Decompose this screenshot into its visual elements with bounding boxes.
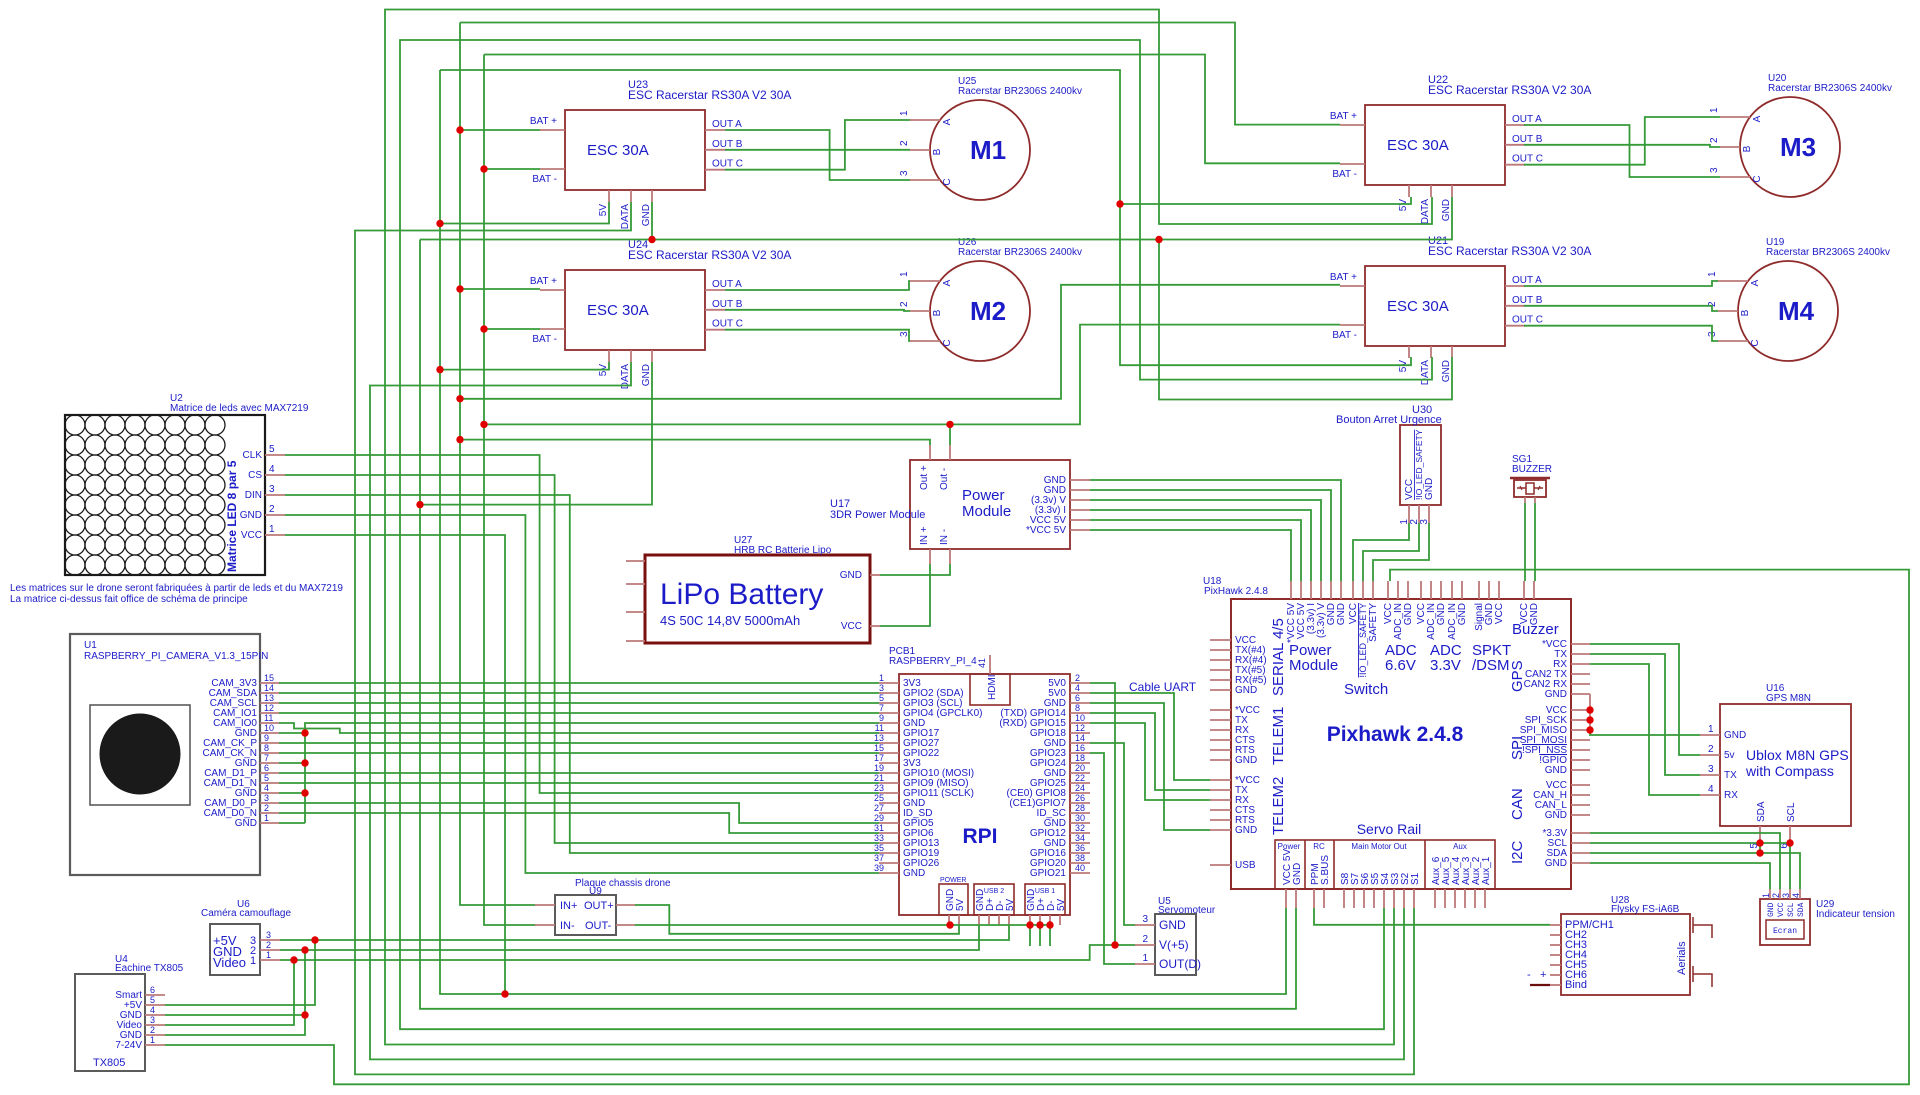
U18 right pin CAN_L [1571, 804, 1590, 806]
svg-text:BAT +: BAT + [530, 276, 557, 287]
svg-text:3: 3 [1708, 764, 1714, 775]
U18 left pin TX(#5) [1210, 669, 1231, 671]
ESC U21 pin GND [1451, 346, 1453, 358]
svg-text:3: 3 [899, 170, 910, 176]
motor U20 pin 2 [1720, 146, 1740, 148]
svg-text:Caméra camouflage: Caméra camouflage [201, 908, 291, 919]
ESC U22 pin OUT A [1505, 124, 1525, 126]
svg-text:M3: M3 [1780, 132, 1816, 162]
wire DATA U23 to S1 [355, 202, 1414, 1074]
U18 right pin *VCC [1571, 643, 1590, 645]
U17 pin (3.3v) I [1070, 509, 1090, 511]
wire RPI GND to TELEM2 GND [1090, 703, 1210, 830]
svg-text:36: 36 [1075, 843, 1085, 853]
wire I2C GND [1590, 863, 1770, 889]
wire camera CK_N [279, 752, 879, 754]
wire U9 OUT+ to RPI 5V [635, 905, 959, 934]
svg-text:3: 3 [150, 1015, 155, 1025]
svg-text:S1: S1 [1410, 872, 1421, 885]
wire USB1 D+ stub [1039, 925, 1041, 946]
PCB1 pin 17 3V3 [879, 762, 899, 764]
U18 right pin SPI_MISO [1571, 729, 1590, 731]
wire GND U21 [1159, 240, 1452, 400]
svg-text:OUT A: OUT A [712, 119, 742, 130]
U18 bottom pin S2 [1403, 889, 1405, 908]
power module U17 [910, 460, 1070, 549]
svg-text:3: 3 [269, 484, 275, 495]
U18 right pin CAN2 RX [1571, 683, 1590, 685]
svg-text:/DSM: /DSM [1472, 657, 1510, 674]
PCB1 pin 41 [989, 655, 991, 674]
svg-text:ESC 30A: ESC 30A [587, 142, 649, 159]
U16 pin 5 SDA [1759, 826, 1761, 840]
wire LED VCC to 5V [285, 535, 505, 994]
svg-text:5: 5 [264, 773, 269, 783]
svg-text:GND: GND [641, 364, 652, 386]
svg-text:S.BUS: S.BUS [1320, 855, 1331, 885]
svg-text:GND: GND [1724, 730, 1746, 741]
svg-text:Main Motor Out: Main Motor Out [1351, 842, 1407, 851]
LiPo battery U27 [645, 555, 870, 643]
U1 pin 1 GND [260, 822, 279, 824]
svg-text:GND: GND [1292, 863, 1303, 885]
PCB1 USB1 connector [1025, 884, 1065, 915]
svg-text:SDA: SDA [1797, 902, 1806, 917]
svg-text:39: 39 [874, 863, 884, 873]
svg-text:OUT A: OUT A [712, 279, 742, 290]
U1 pin 15 CAM_3V3 [260, 682, 279, 684]
wire U30 VCC [1353, 523, 1409, 581]
svg-text:TELEM1: TELEM1 [1270, 707, 1287, 765]
svg-text:2: 2 [1709, 137, 1720, 143]
svg-text:GND: GND [1336, 603, 1347, 625]
U18 right pin !GPIO [1571, 759, 1590, 761]
wire 5V top to U22 U21 [440, 70, 1411, 365]
svg-text:ESC Racerstar RS30A V2 30A: ESC Racerstar RS30A V2 30A [1428, 244, 1591, 258]
U30 pin 1 [1408, 505, 1410, 523]
svg-text:GND: GND [1424, 478, 1435, 500]
svg-text:BAT -: BAT - [1332, 169, 1357, 180]
U18 left pin TX(#4) [1210, 649, 1231, 651]
wire RPI 5V0 to TELEM2 VCC [1090, 693, 1210, 780]
U4 pin 4 GND [145, 1014, 165, 1016]
wire DATA U24 to S2 [370, 362, 1404, 1059]
svg-text:I2C: I2C [1509, 840, 1526, 864]
svg-text:8: 8 [1075, 703, 1080, 713]
U18 top pin ADC_IN [1397, 581, 1399, 599]
svg-text:11: 11 [264, 713, 273, 723]
U18 left pin CTS [1210, 739, 1231, 741]
U27 pin VCC [870, 625, 880, 627]
svg-text:Video: Video [213, 955, 246, 970]
svg-text:M4: M4 [1778, 296, 1815, 326]
motor U26 pin 1 [910, 280, 940, 282]
junction dots [456, 126, 463, 133]
svg-text:2: 2 [269, 504, 275, 515]
ESC U21 pin BAT+ [1340, 285, 1365, 287]
wire GND branch to U4 [165, 950, 305, 1035]
svg-text:CS: CS [248, 470, 262, 481]
U18 top pin GND [1407, 581, 1409, 599]
PCB1 pin 11 GPIO17 [879, 732, 899, 734]
wire camera CK_P [279, 742, 879, 744]
motor U19 pin 2 [1718, 310, 1738, 312]
U6 pin 1 [260, 959, 280, 961]
wire GPS RX [1590, 664, 1700, 795]
U18 left pin *VCC [1210, 709, 1231, 711]
svg-text:4: 4 [1075, 683, 1080, 693]
wire matrix CLK [285, 455, 879, 793]
ESC U24 pin BAT+ [540, 289, 565, 291]
svg-text:Servo Rail: Servo Rail [1357, 821, 1422, 837]
U17 pin Out- [949, 445, 951, 460]
wire GPS TX [1590, 654, 1700, 775]
PCB1 pin 37 GPIO26 [879, 862, 899, 864]
U28 bind lead [1530, 984, 1550, 986]
U18 left pin TX [1210, 719, 1231, 721]
U27 pin GND [870, 574, 880, 576]
svg-text:ESC 30A: ESC 30A [1387, 298, 1449, 315]
svg-text:2: 2 [1771, 893, 1781, 898]
svg-text:*VCC 5V: *VCC 5V [1026, 525, 1066, 536]
U18 left pin RX(#5) [1210, 679, 1231, 681]
svg-text:POWER: POWER [940, 877, 966, 884]
svg-text:Power: Power [962, 487, 1005, 504]
svg-text:ESC Racerstar RS30A V2 30A: ESC Racerstar RS30A V2 30A [1428, 83, 1591, 97]
svg-text:18: 18 [1075, 753, 1085, 763]
svg-text:ESC Racerstar RS30A V2 30A: ESC Racerstar RS30A V2 30A [628, 248, 791, 262]
svg-text:GND: GND [1545, 689, 1567, 700]
svg-text:DIN: DIN [245, 490, 262, 501]
U1 pin 5 CAM_D1_N [260, 782, 279, 784]
svg-text:Racerstar BR2306S 2400kv: Racerstar BR2306S 2400kv [1766, 247, 1890, 258]
svg-text:Bind: Bind [1565, 979, 1587, 991]
svg-text:1: 1 [1142, 953, 1148, 964]
U18 top pin VCC [1387, 581, 1389, 599]
wire BAT+ top to U22 [460, 23, 1340, 125]
svg-text:USB 1: USB 1 [1035, 888, 1055, 895]
svg-text:7: 7 [879, 703, 884, 713]
svg-text:4S 50C 14,8V 5000mAh: 4S 50C 14,8V 5000mAh [660, 613, 800, 628]
svg-text:DATA: DATA [1420, 360, 1431, 386]
U29 pin 3 SCL [1789, 889, 1791, 899]
svg-text:30: 30 [1075, 813, 1085, 823]
wire RPI GND to servo GND [1090, 743, 1135, 925]
U18 bottom pin S4 [1383, 889, 1385, 908]
U18 right pin GND [1571, 862, 1590, 864]
U18 right pin GND [1571, 814, 1590, 816]
wire I2C SCL [1590, 843, 1790, 889]
svg-text:23: 23 [874, 783, 884, 793]
svg-text:OUT C: OUT C [1512, 154, 1543, 165]
motor U26 M2 [930, 261, 1030, 361]
U5 pin 1 OUT(D) [1135, 963, 1155, 965]
U18 right pin VCC [1571, 784, 1590, 786]
wire GND U23 [651, 202, 653, 240]
svg-text:OUT-: OUT- [585, 920, 612, 932]
svg-text:VCC: VCC [841, 621, 862, 632]
U2 pin 3 DIN [265, 494, 285, 496]
svg-text:USB 2: USB 2 [984, 888, 1004, 895]
motor U25 pin 3 [910, 179, 940, 181]
wire M2 OUT B [725, 310, 910, 311]
motor U20 pin 1 [1720, 116, 1750, 118]
U18 right pin SPI_MOSI [1571, 739, 1590, 741]
svg-text:26: 26 [1075, 793, 1085, 803]
svg-text:29: 29 [874, 813, 884, 823]
U1 pin 9 CAM_CK_P [260, 742, 279, 744]
svg-text:BUZZER: BUZZER [1512, 464, 1552, 475]
svg-text:5: 5 [269, 444, 275, 455]
ESC U22 pin DATA [1430, 185, 1432, 197]
svg-text:1: 1 [150, 1035, 155, 1045]
ESC U21 pin DATA [1430, 346, 1432, 358]
svg-text:Ublox M8N GPS: Ublox M8N GPS [1746, 747, 1849, 763]
svg-text:BAT +: BAT + [1330, 111, 1357, 122]
svg-text:GND: GND [240, 510, 262, 521]
wire GPS VCC [1590, 644, 1700, 755]
svg-text:TX: TX [1724, 770, 1737, 781]
U18 bottom pin S8 [1343, 889, 1345, 908]
ESC U23 pin BAT- [540, 168, 565, 170]
ESC U22 pin GND [1451, 185, 1453, 197]
wire matrix CS [285, 475, 879, 843]
svg-text:3: 3 [879, 683, 884, 693]
svg-text:GND: GND [235, 818, 257, 829]
svg-text:10: 10 [264, 723, 274, 733]
svg-text:14: 14 [264, 683, 274, 693]
PCB1 pin 38 GPIO20 [1070, 862, 1090, 864]
svg-text:GND: GND [1457, 603, 1468, 625]
svg-text:SDA: SDA [1756, 801, 1767, 822]
svg-text:6: 6 [150, 985, 155, 995]
wire power module to pixhawk [1090, 490, 1331, 581]
svg-text:SERIAL 4/5: SERIAL 4/5 [1270, 618, 1287, 696]
wire M4 OUT C [1524, 326, 1718, 341]
wire U4 GND4 [165, 1014, 305, 1016]
svg-text:B: B [932, 148, 943, 155]
svg-text:RASPBERRY_PI_CAMERA_V1.3_15PIN: RASPBERRY_PI_CAMERA_V1.3_15PIN [84, 651, 268, 662]
ESC U22 pin OUT B [1505, 144, 1525, 146]
svg-text:M1: M1 [970, 135, 1006, 165]
U18 top pin (3.3v) V [1320, 581, 1322, 599]
U28 aerial 2 [1692, 966, 1694, 982]
U2 pin 1 VCC [265, 534, 285, 536]
U18 top pin GND [1330, 581, 1332, 599]
svg-text:16: 16 [1075, 743, 1085, 753]
svg-text:15: 15 [264, 673, 274, 683]
PCB1 pin 15 GPIO22 [879, 752, 899, 754]
svg-text:RX: RX [1724, 790, 1738, 801]
U18 right pin SDA [1571, 852, 1590, 854]
wire RPI 5V0 to servo [1090, 683, 1115, 945]
PCB1 pin 7 GPIO4 (GPCLK0) [879, 712, 899, 714]
PCB1 pin 19 GPIO10 (MOSI) [879, 772, 899, 774]
U28 pin CH3 [1550, 944, 1561, 946]
U1 pin 6 CAM_D1_P [260, 772, 279, 774]
svg-text:CAN: CAN [1509, 788, 1526, 820]
wire BAT- U24 [484, 328, 540, 330]
svg-text:GND: GND [1235, 755, 1257, 766]
U28 pin CH6 [1550, 974, 1561, 976]
U4 pin 5 +5V [145, 1004, 165, 1006]
U18 bottom pin Aux_4 [1454, 889, 1456, 908]
wire M4 OUT A [1524, 281, 1718, 286]
U28 pin CH2 [1550, 934, 1561, 936]
U4 pin 1 7-24V [145, 1044, 165, 1046]
U18 left pin VCC [1210, 639, 1231, 641]
U17 pin (3.3v) V [1070, 499, 1090, 501]
svg-text:A: A [942, 118, 953, 125]
svg-text:5V: 5V [598, 204, 609, 217]
U18 left pin GND [1210, 689, 1231, 691]
svg-text:GND: GND [1441, 199, 1452, 221]
svg-text:GND: GND [1545, 765, 1567, 776]
svg-text:GND: GND [1235, 685, 1257, 696]
svg-text:Matrice de leds avec MAX7219: Matrice de leds avec MAX7219 [170, 403, 309, 414]
U16 pin 6 SCL [1789, 826, 1791, 840]
svg-text:7-24V: 7-24V [115, 1040, 142, 1051]
svg-text:DATA: DATA [1420, 199, 1431, 225]
svg-text:5v: 5v [1724, 750, 1735, 761]
U18 top pin !IO_LED_SAFETY [1362, 581, 1364, 599]
U18 bottom pin S3 [1393, 889, 1395, 908]
video transmitter U4 [75, 974, 145, 1071]
PCB1 pin 36 GPIO16 [1070, 852, 1090, 854]
U16 pin 2 5v [1700, 754, 1720, 756]
U18 bottom pin Aux_6 [1434, 889, 1436, 908]
svg-text:2: 2 [1142, 934, 1148, 945]
svg-text:3: 3 [266, 930, 271, 940]
svg-text:4: 4 [269, 464, 275, 475]
svg-text:Cable UART: Cable UART [1129, 680, 1197, 694]
svg-text:SAFETY: SAFETY [1368, 603, 1379, 642]
PCB1 pin 20 GND [1070, 772, 1090, 774]
svg-text:33: 33 [874, 833, 884, 843]
PCB1 pin 16 GPIO23 [1070, 752, 1090, 754]
U1 pin 2 CAM_D0_N [260, 812, 279, 814]
PCB1 pin 9 GND [879, 722, 899, 724]
PCB1 pin 21 GPIO9 (MISO) [879, 782, 899, 784]
U29 pin 4 SDA [1799, 889, 1801, 899]
svg-text:A: A [1752, 115, 1763, 122]
U28 pin PPM/CH1 [1550, 924, 1561, 926]
svg-text:Racerstar BR2306S 2400kv: Racerstar BR2306S 2400kv [1768, 83, 1892, 94]
svg-text:40: 40 [1075, 863, 1085, 873]
U28 pin CH5 [1550, 964, 1561, 966]
wire M2 OUT A [725, 281, 910, 290]
PCB1 HDMI [970, 674, 1010, 705]
U18 top pin GND [1340, 581, 1342, 599]
wire M1 OUT A [725, 130, 910, 180]
chassis plate U9 [555, 895, 616, 935]
U5 pin 3 GND [1135, 924, 1155, 926]
svg-text:6: 6 [264, 763, 269, 773]
PCB1 pin 12 GPIO18 [1070, 732, 1090, 734]
svg-text:B: B [1742, 145, 1753, 152]
wire RPI TXD to TELEM2 TX [1090, 713, 1210, 790]
svg-text:12: 12 [1075, 723, 1085, 733]
U30 pin 3 [1428, 505, 1430, 523]
svg-text:15: 15 [874, 743, 884, 753]
U18 right pin !SPI_NSS [1571, 749, 1590, 751]
svg-text:DATA: DATA [620, 204, 631, 230]
svg-text:1: 1 [269, 524, 275, 535]
svg-text:La matrice ci-dessus fait offi: La matrice ci-dessus fait office de sché… [10, 594, 248, 605]
ESC U22 pin BAT+ [1340, 124, 1365, 126]
svg-text:HRB RC Batterie Lipo: HRB RC Batterie Lipo [734, 545, 832, 556]
PCB1 pin 2 5V0 [1070, 682, 1090, 684]
ESC U22 box [1365, 105, 1505, 185]
U18 right pin CAN_H [1571, 794, 1590, 796]
U18 right pin SCL [1571, 842, 1590, 844]
svg-text:25: 25 [874, 793, 884, 803]
ESC U23 pin GND [651, 190, 653, 202]
svg-text:GND: GND [1545, 858, 1567, 869]
wire GPS GND link [1589, 694, 1591, 730]
U18 bottom pin Aux_2 [1474, 889, 1476, 908]
U18 right pin VCC [1571, 709, 1590, 711]
motor U26 pin 3 [910, 340, 940, 342]
svg-text:GPS M8N: GPS M8N [1766, 693, 1811, 704]
svg-text:GND: GND [1403, 603, 1414, 625]
PCB1 pin 35 GPIO19 [879, 852, 899, 854]
wire buzzer VCC [1524, 503, 1526, 581]
wire power module to pixhawk [1090, 500, 1321, 581]
svg-text:27: 27 [874, 803, 884, 813]
U18 top pin GND [1533, 581, 1535, 599]
U28 pin Bind [1550, 984, 1561, 986]
svg-text:HDMI: HDMI [987, 674, 998, 700]
U18 bottom pin Aux_5 [1444, 889, 1446, 908]
svg-text:BAT -: BAT - [532, 174, 557, 185]
svg-text:VCC: VCC [1777, 902, 1786, 917]
wire battery VCC to IN+ [880, 564, 930, 626]
U18 bottom pin GND [1295, 889, 1297, 908]
wire power module to pixhawk [1090, 510, 1311, 581]
wire M4 OUT B [1524, 306, 1718, 311]
svg-text:1: 1 [1708, 724, 1714, 735]
svg-text:CLK: CLK [243, 450, 263, 461]
U1 lens [100, 714, 180, 794]
svg-text:Pixhawk 2.4.8: Pixhawk 2.4.8 [1327, 723, 1464, 746]
svg-text:4: 4 [264, 783, 269, 793]
svg-text:LiPo Battery: LiPo Battery [660, 578, 823, 611]
motor U19 pin 1 [1718, 280, 1748, 282]
wire camera SDA [279, 692, 879, 694]
svg-text:GND: GND [840, 570, 862, 581]
svg-text:B: B [1740, 309, 1751, 316]
svg-text:OUT B: OUT B [1512, 295, 1543, 306]
svg-text:GND: GND [1235, 825, 1257, 836]
U18 top pin GND [1461, 581, 1463, 599]
wire M3 OUT A [1524, 125, 1720, 177]
wire BAT+ U23 [460, 129, 540, 131]
pixhawk U18 [1231, 599, 1571, 889]
PCB1 pin 23 GPIO11 (SCLK) [879, 792, 899, 794]
svg-text:M2: M2 [970, 296, 1006, 326]
wire +5V branch to U4 [165, 940, 315, 1005]
wire BAT- bus [484, 55, 535, 926]
svg-text:2: 2 [1075, 673, 1080, 683]
svg-text:GND: GND [903, 868, 925, 879]
U17 pin GND [1070, 489, 1090, 491]
wire M1 OUT C [725, 120, 910, 170]
servomotor U5 [1155, 914, 1196, 975]
svg-text:B: B [932, 309, 943, 316]
U29 pin 1 GND [1769, 889, 1771, 899]
PCB1 pin 34 GND [1070, 842, 1090, 844]
